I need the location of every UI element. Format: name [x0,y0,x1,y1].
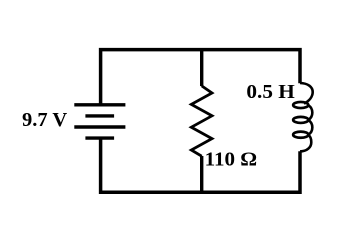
inductor L1 bump 1-2 [308,105,312,120]
inductor L1 loop 1 [293,102,308,108]
inductor L1 loop 2 [293,117,308,123]
inductor L1 loop 3 [293,132,308,138]
wire bottom loop: left stub, bottom wire, right stub [101,138,300,192]
battery V1 plate long lower [74,125,125,128]
battery V1 plate long top [74,103,125,106]
svg-text:9.7 V: 9.7 V [22,109,67,131]
inductor L1 top hook [300,83,313,104]
resistor R1 zigzag [191,86,212,156]
inductor L1 bump 2-3 [308,120,312,135]
wire middle-top stub [200,50,203,87]
svg-text:110 Ω: 110 Ω [205,148,258,170]
battery V1 plate short bottom [85,136,114,139]
inductor L1 bottom hook [300,135,311,152]
wire top loop: left stub, top wire, right stub [101,50,300,105]
battery V1 plate short upper [85,114,114,117]
wire middle-bottom stub [200,156,203,192]
svg-text:0.5 H: 0.5 H [246,81,294,103]
